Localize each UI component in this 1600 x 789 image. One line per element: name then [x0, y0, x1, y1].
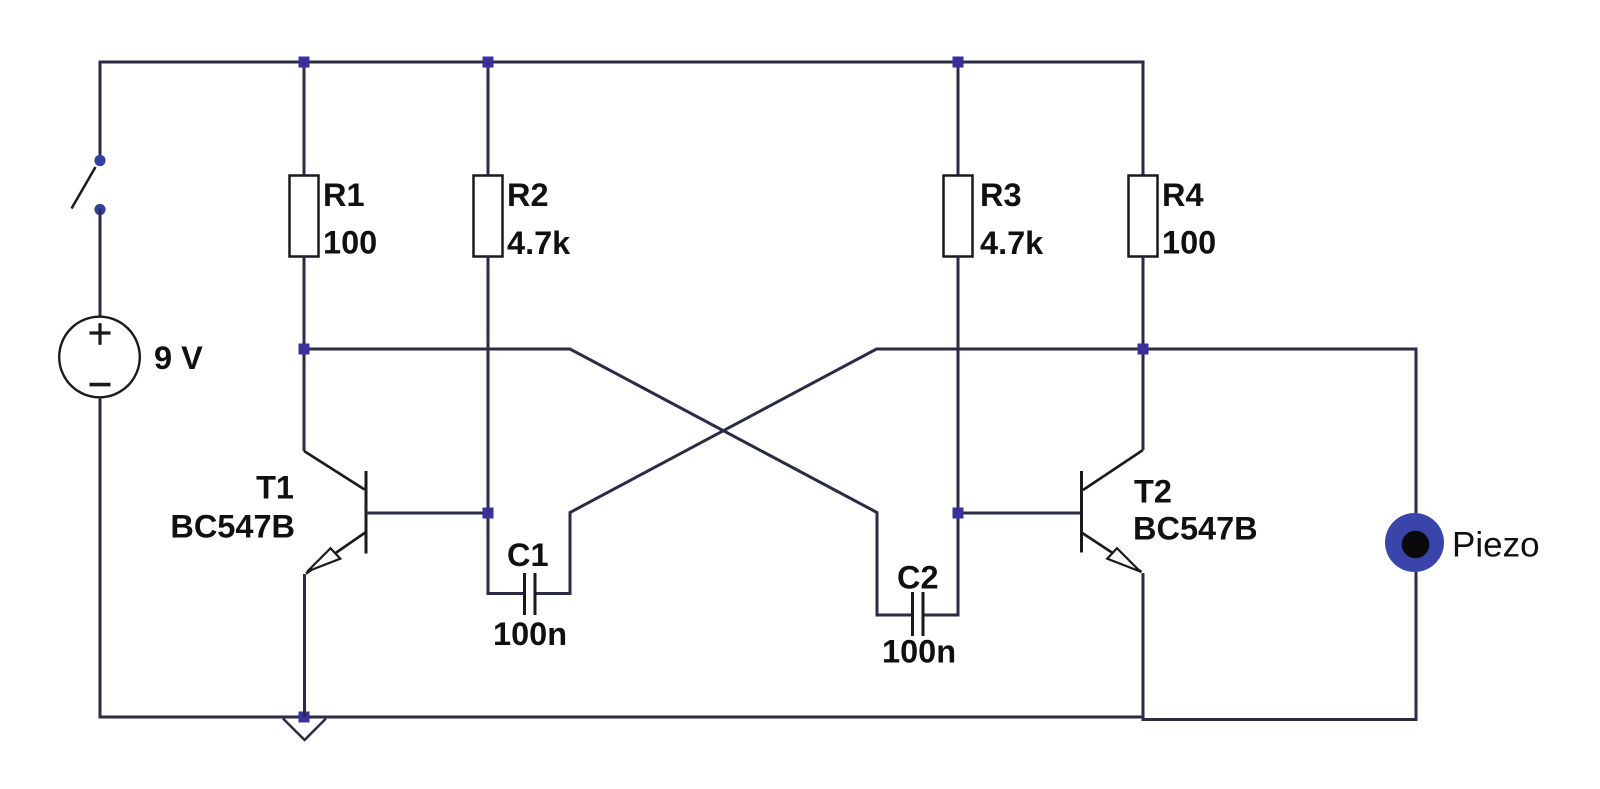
svg-text:100n: 100n	[493, 616, 567, 652]
svg-text:BC547B: BC547B	[170, 509, 295, 545]
wire T1 base	[366, 512, 488, 515]
ground	[283, 719, 326, 741]
switch S1	[72, 155, 106, 215]
svg-text:BC547B: BC547B	[1133, 511, 1258, 547]
svg-text:R4: R4	[1162, 177, 1204, 213]
svg-text:C2: C2	[897, 560, 939, 596]
capacitor C1	[525, 573, 536, 615]
junction top rail R2	[483, 57, 494, 68]
wire top rail (V+ net)	[100, 62, 1143, 176]
svg-text:R2: R2	[507, 177, 549, 213]
junction top rail R1	[299, 57, 310, 68]
resistor R4	[1129, 176, 1158, 257]
capacitor C2	[913, 592, 924, 636]
svg-text:4.7k: 4.7k	[980, 225, 1044, 261]
wire T2 base	[958, 512, 1081, 515]
transistor T2	[1082, 450, 1144, 572]
wire R3 top	[957, 62, 960, 176]
resistor R2	[474, 176, 503, 257]
wire R2 top	[487, 62, 490, 176]
wire R1 top	[303, 62, 306, 176]
svg-text:100n: 100n	[882, 634, 956, 670]
svg-text:4.7k: 4.7k	[507, 225, 571, 261]
wire C1 to T1 base node	[488, 513, 523, 594]
junction emitter T1 at bottom rail	[299, 712, 310, 723]
wire T1 collector	[303, 349, 306, 451]
junction top rail R3	[953, 57, 964, 68]
wire C1 cross-couple to T2 collector rail and piezo	[536, 349, 1416, 594]
wire C2 to T2 base node	[925, 513, 959, 615]
svg-text:100: 100	[323, 225, 377, 261]
resistor R1	[290, 176, 319, 257]
wire R2 bottom	[487, 257, 490, 514]
wire T2 collector	[1142, 349, 1145, 450]
wire R4 bottom	[1142, 257, 1145, 350]
junction T2 base node	[953, 508, 964, 519]
svg-text:Piezo: Piezo	[1452, 526, 1540, 565]
resistor R3	[944, 176, 973, 257]
transistor T1	[304, 451, 366, 574]
wire bottom rail (ground net)	[100, 397, 1143, 717]
svg-text:T1: T1	[256, 470, 294, 506]
junction T1 base node	[483, 508, 494, 519]
svg-text:R3: R3	[980, 177, 1022, 213]
wire R1 bottom	[303, 257, 306, 350]
svg-text:T2: T2	[1134, 474, 1172, 510]
wire switch to battery	[99, 209, 102, 317]
junction T2 collector node	[1138, 344, 1149, 355]
wire T1 emitter	[303, 574, 306, 717]
svg-text:C1: C1	[507, 537, 549, 573]
svg-text:R1: R1	[323, 177, 365, 213]
junction T1 collector node	[299, 344, 310, 355]
voltage source V1	[59, 317, 140, 398]
piezo LS1	[1385, 513, 1444, 572]
wire T2 emitter and piezo return	[1143, 572, 1416, 720]
svg-text:100: 100	[1162, 225, 1216, 261]
wire T1 collector cross-couple to C2	[304, 349, 911, 615]
svg-text:9 V: 9 V	[154, 340, 203, 376]
wire R3 bottom	[957, 257, 960, 514]
